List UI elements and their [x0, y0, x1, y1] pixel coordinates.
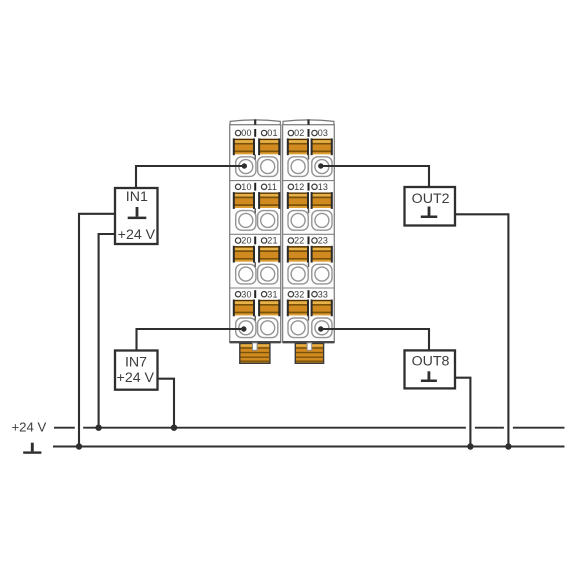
svg-text:11: 11 [267, 182, 277, 192]
svg-text:OUT2: OUT2 [412, 191, 450, 207]
svg-text:31: 31 [267, 289, 277, 299]
svg-text:21: 21 [267, 236, 277, 246]
svg-text:OUT8: OUT8 [412, 354, 450, 370]
svg-text:IN7: IN7 [125, 354, 147, 370]
svg-text:+24 V: +24 V [117, 370, 155, 386]
svg-text:00: 00 [241, 128, 251, 138]
svg-text:12: 12 [294, 182, 304, 192]
svg-text:33: 33 [318, 289, 328, 299]
svg-text:22: 22 [294, 236, 304, 246]
svg-text:+24 V: +24 V [11, 419, 46, 434]
svg-text:03: 03 [318, 128, 328, 138]
svg-text:30: 30 [241, 289, 251, 299]
svg-text:10: 10 [241, 182, 251, 192]
svg-text:+24 V: +24 V [118, 227, 156, 243]
svg-text:13: 13 [318, 182, 328, 192]
svg-text:IN1: IN1 [126, 189, 148, 205]
svg-text:32: 32 [294, 289, 304, 299]
svg-text:20: 20 [241, 236, 251, 246]
svg-text:01: 01 [267, 128, 277, 138]
svg-text:02: 02 [294, 128, 304, 138]
svg-text:23: 23 [318, 236, 328, 246]
